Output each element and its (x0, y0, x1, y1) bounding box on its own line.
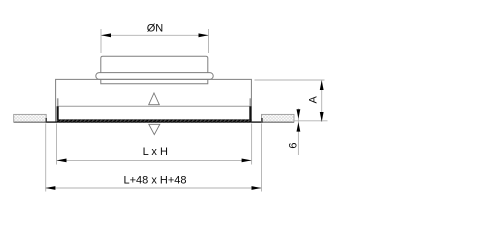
svg-text:A: A (308, 95, 320, 103)
svg-text:L x H: L x H (143, 146, 168, 158)
svg-text:ØN: ØN (147, 22, 164, 34)
svg-text:L+48 x H+48: L+48 x H+48 (124, 174, 187, 186)
svg-text:6: 6 (288, 142, 300, 148)
